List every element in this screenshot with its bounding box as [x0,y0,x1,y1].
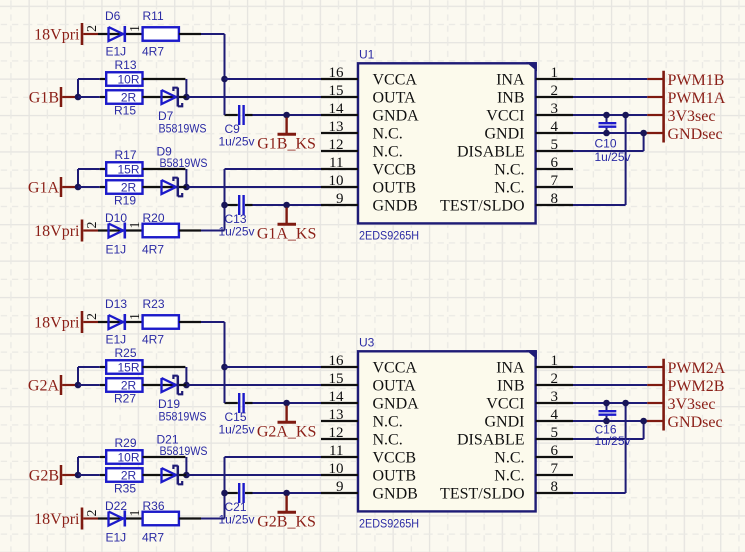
svg-text:11: 11 [329,155,343,171]
svg-text:4R7: 4R7 [142,531,164,545]
svg-text:G1B: G1B [29,90,59,107]
svg-text:GNDB: GNDB [373,485,418,502]
svg-text:11: 11 [329,443,343,459]
svg-text:R27: R27 [114,392,136,406]
svg-text:8: 8 [551,479,559,495]
svg-text:R15: R15 [114,104,136,118]
svg-text:R17: R17 [115,148,137,162]
svg-text:N.C.: N.C. [373,431,403,448]
svg-text:OUTA: OUTA [373,377,417,394]
svg-text:INB: INB [497,89,525,106]
svg-text:E1J: E1J [106,531,127,545]
svg-text:10R: 10R [117,450,139,464]
svg-text:2: 2 [551,83,559,99]
svg-text:12: 12 [329,425,344,441]
svg-text:R36: R36 [143,499,165,513]
svg-text:1u/25v: 1u/25v [219,135,255,149]
svg-text:10R: 10R [117,72,139,86]
svg-text:U1: U1 [359,48,375,62]
svg-text:6: 6 [551,155,559,171]
svg-text:VCCI: VCCI [486,107,524,124]
svg-text:15R: 15R [117,162,139,176]
svg-text:3V3sec: 3V3sec [668,396,716,413]
svg-text:G1A_KS: G1A_KS [257,226,317,243]
svg-text:1: 1 [128,222,143,229]
svg-text:1: 1 [128,25,143,32]
svg-text:INA: INA [496,71,525,88]
svg-text:3: 3 [551,101,559,117]
svg-text:VCCA: VCCA [373,71,418,88]
svg-text:PWM2B: PWM2B [668,378,725,395]
svg-text:D13: D13 [105,297,127,311]
svg-text:PWM1B: PWM1B [668,72,725,89]
svg-text:R13: R13 [115,58,137,72]
svg-text:18Vpri: 18Vpri [34,223,80,240]
svg-text:D6: D6 [105,9,121,23]
svg-text:13: 13 [329,407,344,423]
svg-text:2: 2 [85,313,100,320]
svg-text:GNDsec: GNDsec [668,126,723,143]
svg-text:2R: 2R [121,378,137,392]
svg-text:18Vpri: 18Vpri [34,511,80,528]
svg-text:OUTB: OUTB [373,179,417,196]
svg-text:1: 1 [551,65,559,81]
svg-text:GNDI: GNDI [485,413,525,430]
svg-text:PWM2A: PWM2A [668,360,726,377]
svg-text:N.C.: N.C. [494,449,524,466]
svg-text:G1A: G1A [28,180,60,197]
svg-text:3: 3 [551,389,559,405]
svg-text:2R: 2R [121,90,137,104]
svg-text:TEST/SLDO: TEST/SLDO [440,485,524,502]
svg-text:GNDI: GNDI [485,125,525,142]
svg-text:VCCB: VCCB [373,161,417,178]
svg-text:6: 6 [551,443,559,459]
svg-text:B5819WS: B5819WS [160,444,208,458]
svg-text:B5819WS: B5819WS [159,410,207,424]
svg-text:E1J: E1J [106,333,127,347]
svg-text:2EDS9265H: 2EDS9265H [359,516,419,530]
svg-text:N.C.: N.C. [494,179,524,196]
svg-text:4R7: 4R7 [142,333,164,347]
svg-text:VCCA: VCCA [373,359,418,376]
svg-text:G1B_KS: G1B_KS [257,136,316,153]
svg-text:16: 16 [329,353,345,369]
svg-text:R25: R25 [115,346,137,360]
svg-text:C10: C10 [595,137,617,151]
svg-text:2: 2 [85,222,100,229]
svg-text:N.C.: N.C. [494,467,524,484]
svg-text:GNDA: GNDA [373,107,420,124]
svg-text:1u/25v: 1u/25v [595,434,631,448]
svg-text:N.C.: N.C. [373,125,403,142]
svg-text:R19: R19 [114,194,136,208]
svg-text:R35: R35 [114,482,136,496]
svg-text:10: 10 [329,461,344,477]
svg-text:1: 1 [128,313,143,320]
svg-text:GNDB: GNDB [373,197,418,214]
svg-text:4R7: 4R7 [142,243,164,257]
svg-text:R23: R23 [143,297,165,311]
svg-text:G2B_KS: G2B_KS [257,514,316,531]
svg-text:R20: R20 [143,211,165,225]
svg-text:14: 14 [329,101,345,117]
svg-text:B5819WS: B5819WS [159,122,207,136]
svg-text:TEST/SLDO: TEST/SLDO [440,197,524,214]
svg-text:3V3sec: 3V3sec [668,108,716,125]
svg-text:13: 13 [329,119,344,135]
svg-text:INA: INA [496,359,525,376]
svg-text:5: 5 [551,137,559,153]
svg-text:2R: 2R [121,180,137,194]
svg-text:N.C.: N.C. [494,161,524,178]
svg-text:1: 1 [128,510,143,517]
svg-text:2: 2 [551,371,559,387]
svg-text:GNDA: GNDA [373,395,420,412]
svg-text:G2A: G2A [28,378,60,395]
svg-text:OUTA: OUTA [373,89,417,106]
svg-text:B5819WS: B5819WS [160,156,208,170]
svg-text:1u/25v: 1u/25v [595,150,631,164]
svg-text:D22: D22 [105,499,127,513]
svg-text:15: 15 [329,83,344,99]
svg-text:15: 15 [329,371,344,387]
svg-text:2: 2 [85,25,100,32]
svg-text:DISABLE: DISABLE [457,431,525,448]
svg-text:10: 10 [329,173,344,189]
svg-text:18Vpri: 18Vpri [34,315,80,332]
svg-text:9: 9 [336,191,344,207]
svg-text:2R: 2R [121,468,137,482]
svg-text:INB: INB [497,377,525,394]
svg-text:2: 2 [85,510,100,517]
svg-text:R11: R11 [143,9,164,23]
svg-text:2EDS9265H: 2EDS9265H [359,228,419,242]
svg-text:16: 16 [329,65,345,81]
svg-text:U3: U3 [359,336,375,350]
svg-text:D10: D10 [105,211,127,225]
svg-text:12: 12 [329,137,344,153]
svg-text:5: 5 [551,425,559,441]
svg-text:9: 9 [336,479,344,495]
svg-text:N.C.: N.C. [373,413,403,430]
svg-text:4R7: 4R7 [142,45,164,59]
svg-text:PWM1A: PWM1A [668,90,726,107]
svg-text:4: 4 [551,119,559,135]
svg-text:14: 14 [329,389,345,405]
svg-text:E1J: E1J [106,45,127,59]
svg-text:VCCI: VCCI [486,395,524,412]
svg-text:R29: R29 [115,436,137,450]
svg-text:G2A_KS: G2A_KS [257,424,317,441]
svg-text:4: 4 [551,407,559,423]
svg-text:1u/25v: 1u/25v [219,423,255,437]
svg-text:G2B: G2B [29,468,59,485]
svg-text:GNDsec: GNDsec [668,414,723,431]
svg-text:18Vpri: 18Vpri [34,27,80,44]
svg-text:15R: 15R [117,360,139,374]
svg-text:7: 7 [551,461,559,477]
svg-text:E1J: E1J [106,243,127,257]
svg-text:1: 1 [551,353,559,369]
svg-text:DISABLE: DISABLE [457,143,525,160]
svg-text:OUTB: OUTB [373,467,417,484]
svg-text:N.C.: N.C. [373,143,403,160]
svg-text:VCCB: VCCB [373,449,417,466]
svg-text:7: 7 [551,173,559,189]
svg-text:8: 8 [551,191,559,207]
